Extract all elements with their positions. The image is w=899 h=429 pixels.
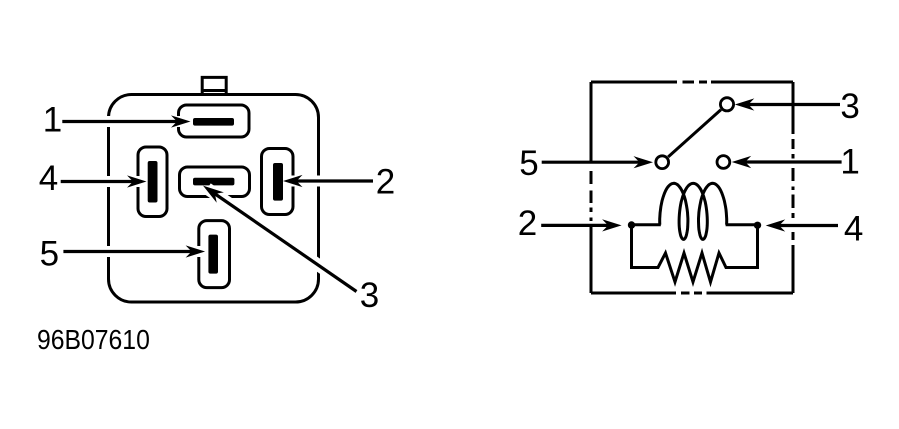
svg-text:1: 1	[840, 143, 859, 182]
svg-text:4: 4	[844, 210, 863, 249]
svg-text:1: 1	[43, 101, 62, 140]
svg-text:5: 5	[40, 235, 59, 274]
svg-text:2: 2	[518, 204, 537, 243]
svg-text:96B07610: 96B07610	[37, 324, 150, 356]
svg-text:4: 4	[39, 159, 58, 198]
svg-text:3: 3	[360, 276, 379, 315]
svg-text:2: 2	[376, 162, 395, 201]
svg-text:3: 3	[840, 87, 859, 126]
svg-text:5: 5	[519, 144, 538, 183]
